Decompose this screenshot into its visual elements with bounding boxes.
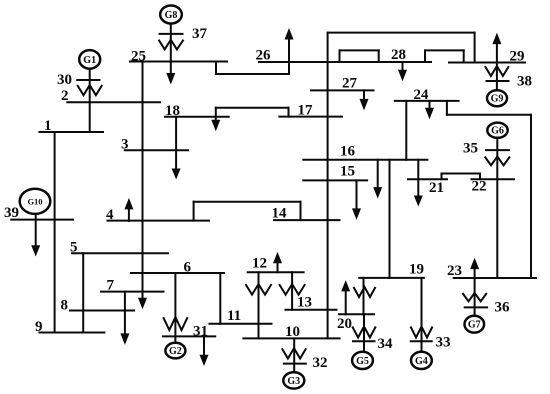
- svg-text:39: 39: [4, 205, 19, 221]
- svg-text:14: 14: [272, 206, 288, 222]
- svg-text:30: 30: [57, 72, 72, 88]
- svg-text:G10: G10: [27, 196, 42, 206]
- svg-text:23: 23: [447, 263, 462, 279]
- svg-text:3: 3: [121, 137, 129, 153]
- svg-text:G5: G5: [356, 356, 369, 367]
- svg-text:1: 1: [44, 118, 52, 134]
- svg-text:16: 16: [340, 144, 356, 160]
- svg-text:37: 37: [192, 26, 208, 42]
- svg-text:24: 24: [414, 87, 430, 103]
- svg-text:6: 6: [184, 260, 192, 276]
- svg-text:21: 21: [429, 180, 444, 196]
- svg-text:2: 2: [61, 88, 69, 104]
- svg-text:12: 12: [252, 256, 267, 272]
- svg-text:31: 31: [193, 324, 208, 340]
- svg-text:4: 4: [106, 207, 114, 223]
- svg-text:G8: G8: [165, 10, 178, 21]
- svg-text:35: 35: [463, 141, 478, 157]
- svg-text:11: 11: [227, 308, 241, 324]
- svg-text:29: 29: [510, 49, 525, 65]
- svg-text:10: 10: [285, 324, 300, 340]
- svg-text:G4: G4: [415, 356, 428, 367]
- svg-text:25: 25: [131, 49, 146, 65]
- svg-text:19: 19: [409, 262, 424, 278]
- svg-text:G9: G9: [491, 94, 504, 105]
- svg-text:9: 9: [35, 319, 43, 335]
- svg-text:20: 20: [337, 316, 352, 332]
- svg-text:32: 32: [313, 355, 328, 371]
- svg-text:28: 28: [391, 47, 406, 63]
- svg-text:7: 7: [107, 278, 115, 294]
- svg-text:G1: G1: [83, 55, 96, 66]
- svg-text:33: 33: [436, 335, 451, 351]
- svg-text:38: 38: [517, 74, 532, 90]
- svg-text:26: 26: [256, 48, 272, 64]
- svg-text:G7: G7: [468, 320, 481, 331]
- svg-text:36: 36: [495, 300, 511, 316]
- svg-text:13: 13: [297, 295, 312, 311]
- svg-text:5: 5: [70, 240, 78, 256]
- svg-text:34: 34: [378, 336, 394, 352]
- svg-text:8: 8: [61, 298, 69, 314]
- svg-text:15: 15: [340, 164, 355, 180]
- svg-text:G6: G6: [491, 126, 504, 137]
- svg-text:G3: G3: [287, 376, 300, 387]
- svg-text:17: 17: [298, 103, 314, 119]
- svg-text:18: 18: [165, 103, 180, 119]
- svg-text:27: 27: [342, 76, 358, 92]
- svg-text:G2: G2: [169, 346, 182, 357]
- svg-text:22: 22: [472, 179, 487, 195]
